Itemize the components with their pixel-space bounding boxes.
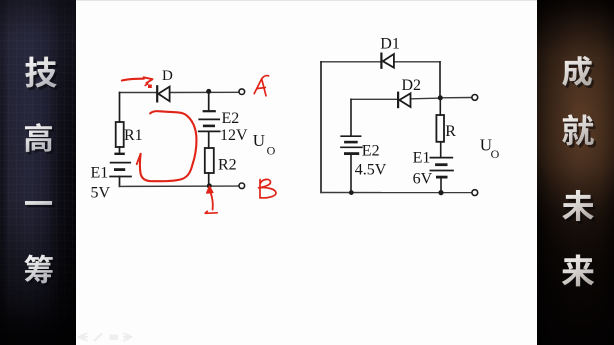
node: bottom junction: [207, 183, 212, 188]
node: top junction of E2 branch: [206, 89, 211, 94]
red letter B: [259, 179, 277, 198]
resistor R box: [436, 115, 444, 142]
wire: R1 to E1: [119, 147, 121, 154]
red loop arrowhead: [137, 154, 141, 164]
terminal bottom open circle: [472, 190, 478, 196]
svg-text:R: R: [445, 123, 456, 140]
resistor R2 box: [205, 148, 214, 173]
wire: E2 to bottom rail: [350, 154, 352, 193]
terminal top open circle: [472, 95, 478, 101]
wire: E2 vertical from D2 row: [350, 99, 352, 136]
wire: left circuit bottom rail: [120, 185, 239, 187]
wire: left vertical (to R1): [119, 93, 121, 123]
wire: right vertical (top rail to node): [439, 62, 441, 98]
left dark banner panel: [0, 0, 76, 345]
svg-text:D: D: [162, 68, 173, 84]
svg-text:E2: E2: [222, 110, 240, 127]
svg-text:R2: R2: [218, 157, 237, 174]
battery E2 plates: [199, 111, 220, 131]
toolbar icon eraser: [110, 335, 119, 341]
toolbar icon pen: [95, 334, 102, 341]
node: E1 bottom junction: [438, 190, 443, 195]
red down-stroke below node B (handwritten arrow): [205, 186, 217, 213]
battery E2 plates (right circuit): [341, 136, 362, 153]
wire: left circuit top rail: [120, 91, 239, 93]
red arrow at diode D: [122, 77, 153, 88]
resistor R1 box: [116, 122, 124, 147]
toolbar icon redo arrow: [124, 334, 132, 341]
wire: node to E2: [208, 91, 210, 111]
diode D (cathode bar left, triangle pointing left): [157, 86, 169, 101]
red letter A: [254, 76, 268, 96]
svg-text:E1: E1: [413, 150, 431, 167]
wire: left vertical rail: [320, 62, 322, 193]
terminal B open circle: [239, 183, 245, 189]
banner character 成: [562, 56, 594, 89]
battery E1 plates: [110, 154, 131, 177]
svg-text:R1: R1: [124, 127, 143, 144]
wire: right circuit bottom rail: [321, 192, 472, 194]
banner character 未: [562, 190, 596, 224]
banner character 高: [25, 123, 54, 154]
wire: R2 to bottom rail: [208, 173, 210, 186]
svg-text:6V: 6V: [413, 171, 433, 188]
wire: node to resistor R: [439, 98, 441, 115]
banner character 就: [562, 114, 596, 148]
svg-text:E1: E1: [91, 165, 109, 182]
diode D2 (cathode bar left): [398, 93, 410, 107]
wire: E2 to R2: [208, 131, 210, 148]
faint whiteboard toolbar icons: [79, 334, 132, 341]
banner character 筹: [24, 255, 55, 286]
svg-text:4.5V: 4.5V: [355, 162, 387, 179]
labels right circuit: [355, 36, 500, 188]
wire: E1 to bottom rail: [119, 177, 121, 187]
banner character 来: [562, 255, 597, 290]
svg-text:12V: 12V: [220, 127, 248, 144]
wire: D2 row: [351, 98, 472, 100]
red loop annotation: [140, 111, 196, 181]
labels left circuit: [91, 68, 276, 202]
right dark banner panel: [537, 0, 614, 345]
svg-text:E2: E2: [362, 143, 380, 160]
node: D2/R junction: [438, 95, 443, 100]
wire: right circuit top rail with D1: [321, 61, 440, 63]
svg-text:D1: D1: [380, 36, 400, 53]
wire: R to E1: [440, 142, 442, 158]
svg-text:D2: D2: [402, 77, 422, 94]
svg-text:5V: 5V: [91, 185, 111, 202]
banner character 技: [25, 57, 59, 91]
diode D1 (cathode bar left): [381, 54, 394, 68]
wire: E1 to bottom rail: [440, 177, 442, 193]
battery E1 plates (right circuit): [430, 158, 453, 178]
banner character 一: [25, 201, 54, 207]
svg-text:O: O: [491, 147, 500, 161]
svg-text:U: U: [253, 131, 265, 150]
toolbar icon undo arrow: [79, 334, 88, 341]
svg-text:O: O: [267, 143, 276, 157]
faint top edge line of whiteboard: [76, 0, 537, 1]
node: E2 bottom junction: [349, 190, 354, 195]
terminal A open circle: [239, 89, 245, 95]
